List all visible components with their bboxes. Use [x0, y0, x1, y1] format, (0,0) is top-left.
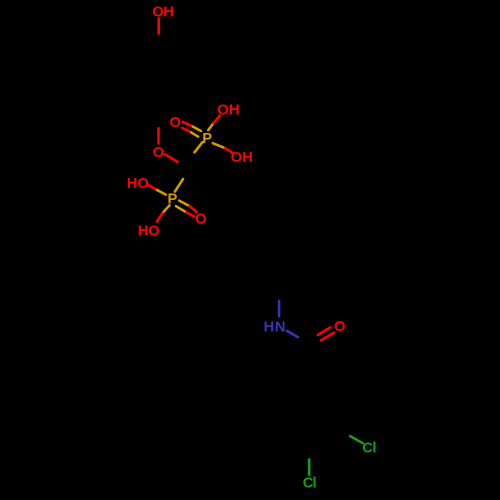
wire ring C to right Cl (green half)	[350, 436, 363, 443]
svg-text:P: P	[168, 192, 178, 208]
wire ether O to central C (red half)	[165, 154, 178, 162]
wire C=O double bond upper line red half	[318, 327, 331, 335]
wire C4 to ether O (half bond above O)	[157, 128, 160, 143]
wire N to carbonyl C (blue half)	[287, 331, 298, 337]
node HN amide nitrogen	[264, 319, 286, 335]
svg-text:P: P	[202, 131, 212, 147]
wire chain CH2 to N (blue half)	[278, 301, 281, 317]
wire P1 to top OH red half	[214, 116, 220, 124]
node HO on P2 bottom	[138, 224, 160, 240]
wire P2=O double bond upper line red half	[190, 206, 197, 212]
svg-text:H: H	[264, 319, 275, 335]
wire left HO to P2 orange half	[157, 190, 166, 195]
svg-text:H: H	[242, 150, 253, 166]
svg-text:O: O	[334, 319, 345, 335]
svg-text:O: O	[231, 150, 242, 166]
node OH hydroxyl top	[152, 5, 174, 21]
node Cl right	[362, 440, 376, 456]
wire top OH to C1 (O-C half bond)	[157, 18, 160, 33]
svg-text:O: O	[148, 224, 159, 240]
wire P2=O double bond upper line orange half	[179, 201, 189, 207]
wire P1 to right OH orange half	[213, 143, 225, 148]
wire P1=O double bond lower line red half	[182, 128, 191, 132]
svg-text:O: O	[137, 176, 148, 192]
node OH on P1 right	[231, 150, 253, 166]
wire P1 to top OH orange half	[208, 123, 213, 130]
wire P1=O double bond upper line orange half	[193, 127, 201, 131]
svg-text:O: O	[195, 212, 206, 228]
wire P2 to bottom HO red half	[157, 213, 162, 221]
wire central C to P2 (orange half)	[175, 179, 183, 192]
svg-text:H: H	[229, 103, 240, 119]
node OH on P1 top	[217, 103, 239, 119]
svg-text:N: N	[275, 319, 286, 335]
svg-text:O: O	[217, 103, 228, 119]
svg-text:O: O	[153, 145, 164, 161]
svg-text:H: H	[138, 224, 149, 240]
node HO on P2 left	[127, 176, 149, 192]
svg-text:H: H	[163, 5, 174, 21]
wire C=O double bond lower line red half	[321, 333, 334, 341]
svg-text:l: l	[313, 476, 317, 492]
wire P2=O double bond lower line orange half	[176, 206, 186, 212]
wire P1=O double bond lower line orange half	[191, 132, 198, 136]
svg-text:l: l	[372, 440, 376, 456]
svg-text:O: O	[152, 5, 163, 21]
wire left HO to P2 red half	[148, 185, 157, 190]
wire P1=O double bond upper line red half	[183, 122, 193, 127]
wire ring C to bottom Cl (green half)	[308, 459, 311, 474]
node Cl bottom	[303, 476, 317, 492]
svg-text:H: H	[127, 176, 138, 192]
wire central C to P1 (orange half)	[195, 142, 203, 152]
wire P2 to bottom HO orange half	[162, 205, 169, 213]
wire P1 to right OH red half	[225, 148, 233, 153]
wire P2=O double bond lower line red half	[186, 212, 194, 216]
svg-text:O: O	[169, 115, 180, 131]
